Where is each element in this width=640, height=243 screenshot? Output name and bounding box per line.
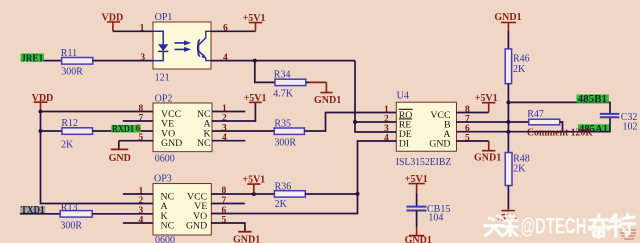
svg-text:485B1: 485B1 [578, 94, 608, 105]
svg-text:2K: 2K [513, 164, 526, 175]
power VDD (top, at OP1 pin 1) [102, 13, 124, 32]
node junction 485B1 tap [506, 100, 510, 104]
resistor R12 [61, 118, 93, 151]
node junction +5V1/R36 [252, 192, 256, 196]
svg-text:4: 4 [223, 53, 228, 63]
svg-text:GND1: GND1 [474, 152, 501, 163]
svg-text:NC: NC [161, 220, 175, 231]
node junction A net [506, 130, 510, 134]
wire R48 to +5V1 (bottom) [507, 186, 509, 210]
svg-text:DI: DI [399, 138, 409, 149]
wire GND1 to R46 [507, 31, 509, 49]
resistor R48 [505, 153, 530, 186]
svg-text:0600: 0600 [155, 235, 175, 243]
svg-text:JRE1: JRE1 [21, 53, 43, 64]
power +5V1 (at CB15) [405, 174, 428, 193]
wire TXD1 to R13 [20, 213, 60, 215]
watermark 帝特 [589, 214, 634, 237]
svg-text:R11: R11 [61, 48, 77, 59]
wire U4 pin 6 (A) to C32 [456, 117, 610, 131]
wire R47 to A net [560, 122, 563, 132]
ground GND1 (at CB15) [405, 228, 432, 243]
capacitor C32 [600, 112, 638, 132]
wire VDD to R12 [41, 130, 63, 132]
wire OP2 pin 3 to R35 [212, 130, 274, 132]
power VDD (left column) [32, 93, 54, 112]
svg-text:GND1: GND1 [233, 235, 260, 243]
svg-text:OP1: OP1 [155, 12, 173, 23]
svg-text:300R: 300R [274, 137, 296, 148]
wire OP2 pin 1 stub [212, 111, 245, 113]
power +5V1 (at OP2 pin 2) [244, 93, 267, 104]
node junction DI/R36 [356, 192, 360, 196]
wire +5V1 to CB15 [416, 193, 418, 206]
OP1 internal light arrows [175, 40, 192, 52]
node junction RE/DE [353, 120, 357, 124]
ground GND1 (at U4 pin 5) [474, 141, 501, 163]
OP2 pin names left [161, 109, 182, 149]
svg-text:R36: R36 [275, 181, 292, 192]
ground GND1 (at OP3 pin 5) [233, 232, 260, 243]
svg-text:3: 3 [140, 53, 145, 63]
svg-text:Comment 120R: Comment 120R [527, 128, 593, 139]
watermark 头条 [485, 216, 517, 236]
resistor R35 [274, 119, 304, 149]
power +5V1 (below R48, inverted) [495, 211, 518, 224]
wire R46 down to R48 [507, 84, 509, 153]
OP1 internal LED [153, 31, 168, 60]
wire U4 pin 7 (B) to R47 [456, 121, 528, 123]
wire OP2 pin 5 to GND [119, 141, 153, 149]
wire JRE1 to R11 [44, 60, 62, 62]
wire OP3 pin 5 to GND1 [211, 223, 245, 231]
wire OP1 pin 6 to +5V1 [211, 30, 256, 32]
svg-text:GND: GND [109, 153, 131, 164]
wire OP3 pin 8 to R36 net [211, 193, 274, 195]
resistor R46 [505, 49, 529, 84]
optocoupler OP2 [153, 93, 212, 164]
node junction VDD/R12 [39, 129, 43, 133]
svg-text:2K: 2K [513, 64, 526, 75]
IC U4 ISL3152EIBZ [396, 91, 457, 168]
svg-text:R12: R12 [61, 118, 78, 129]
wire CB15 to GND1 [416, 211, 418, 228]
wire OP2 pin 4 stub [212, 140, 245, 142]
wire OP3 pin 4 stub [123, 222, 153, 224]
OP1 internal phototransistor [198, 31, 211, 60]
svg-text:1: 1 [140, 24, 145, 34]
wire 485B1 to C32 [508, 102, 610, 114]
capacitor CB15 [406, 204, 450, 224]
net label 485A1 [578, 124, 610, 135]
wire U4 pin 4 (DI) down to OP3 VO [211, 141, 396, 214]
wire OP1 pin 4 across to RE/DE column [211, 60, 355, 62]
watermark stamp small red marks [620, 230, 636, 239]
node junction B net [506, 120, 510, 124]
U4 pin name RE (overline) [399, 119, 412, 130]
svg-text:@DTECH: @DTECH [521, 214, 587, 239]
wire R35 to U4 pin 1 [304, 113, 396, 132]
wire OP2 pin 8 [41, 111, 154, 113]
power +5V1 (at OP3 pin 8) [242, 175, 265, 194]
svg-text:3: 3 [384, 124, 389, 134]
net label 485B1 [577, 94, 609, 105]
svg-text:4.7K: 4.7K [273, 88, 294, 99]
node junction at R34 tap [253, 59, 257, 63]
svg-text:RXD1: RXD1 [112, 124, 134, 135]
svg-text:GND1: GND1 [405, 235, 432, 243]
wire branch to U4 pin 2 [355, 121, 396, 123]
wire R12 to OP2 pin 6 [93, 130, 154, 132]
optocoupler OP1 [153, 12, 211, 84]
svg-text:R34: R34 [274, 69, 291, 80]
svg-text:8: 8 [139, 104, 144, 114]
svg-text:6: 6 [222, 206, 227, 216]
svg-text:GND: GND [429, 138, 450, 149]
wire OP3 pin 1 stub [123, 193, 153, 195]
ground GND1 (at R34) [314, 82, 341, 106]
ground GND (isolated side) [109, 149, 131, 164]
svg-text:121: 121 [155, 73, 170, 84]
OP3 pin names left [161, 191, 175, 231]
svg-text:1: 1 [384, 105, 389, 115]
svg-text:GND1: GND1 [314, 95, 341, 106]
net label TXD1 [20, 205, 45, 216]
OP3 pin names right [186, 191, 207, 231]
wire VDD to OP1 pin 1 [113, 30, 153, 32]
node junction VDD/OP2 pin8 [39, 110, 43, 114]
svg-text:2K: 2K [275, 199, 288, 210]
svg-text:GND: GND [161, 138, 182, 149]
resistor R36 [274, 181, 305, 210]
wire OP2 pin 7 stub [123, 120, 153, 122]
svg-text:300R: 300R [60, 221, 82, 232]
wire RE/DE vertical from OP1 pin4 net [355, 61, 396, 132]
svg-text:R46: R46 [513, 53, 530, 64]
wire down to R34 [255, 61, 275, 83]
resistor R47 [527, 109, 560, 125]
svg-text:0600: 0600 [155, 153, 175, 164]
svg-text:300R: 300R [61, 67, 83, 78]
net label JRE1 [21, 53, 44, 64]
wire R11 to OP1 pin 3 [93, 60, 153, 62]
power +5V1 (at OP1 pin 6) [243, 13, 266, 31]
svg-text:NC: NC [197, 138, 211, 149]
wire R34 to GND1 [306, 81, 310, 83]
wire U4 pin 5 to GND1 [456, 140, 488, 142]
svg-text:OP3: OP3 [154, 173, 172, 184]
wire OP3 pin 7 stub [211, 203, 245, 205]
U4 pin name RO (overline) [399, 109, 413, 121]
resistor R11 [61, 48, 93, 78]
svg-text:U4: U4 [397, 91, 409, 102]
svg-text:2: 2 [384, 114, 389, 124]
svg-text:GND: GND [186, 220, 207, 231]
svg-text:ISL3152EIBZ: ISL3152EIBZ [396, 157, 452, 168]
svg-text:GND1: GND1 [494, 12, 521, 23]
ground GND1 (top, at R46) [494, 12, 521, 31]
svg-text:R13: R13 [61, 202, 78, 213]
wire R13 to OP3 pin 3 [92, 213, 153, 215]
wire OP2 pin 2 to +5V1 [212, 103, 255, 121]
optocoupler OP3 [153, 173, 211, 243]
svg-text:2K: 2K [61, 140, 74, 151]
resistor R13 [60, 202, 92, 231]
svg-text:2: 2 [139, 196, 144, 206]
svg-text:104: 104 [428, 213, 443, 224]
OP2 pin names right [197, 109, 211, 149]
svg-text:R35: R35 [274, 119, 291, 130]
wire VDD column vertical [41, 112, 154, 204]
wire R36 to DI column [305, 193, 357, 195]
svg-text:R47: R47 [527, 109, 544, 120]
svg-text:102: 102 [623, 122, 638, 133]
wire U4 pin 8 to +5V1 [456, 112, 488, 114]
resistor R34 [273, 69, 306, 99]
net label RXD1 [111, 124, 141, 135]
power +5V1 (at U4 pin 8) [475, 93, 498, 112]
